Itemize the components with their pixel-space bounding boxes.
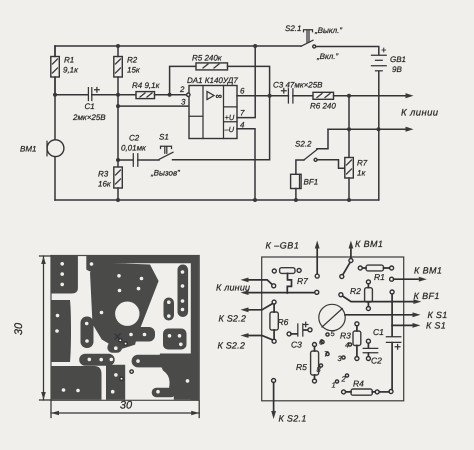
wire К S2.2 lower xyxy=(249,336,273,340)
svg-text:C1: C1 xyxy=(85,102,95,111)
node +U top xyxy=(253,44,257,48)
op-amp triangle symbol xyxy=(207,92,214,100)
wire feedback to output xyxy=(228,66,270,95)
wire К линии 2 xyxy=(249,292,315,294)
arrow К S2.1 xyxy=(272,379,276,383)
dimension left line xyxy=(43,256,45,400)
wire S2.2 line xyxy=(328,128,407,130)
arrow К ВМ1 top xyxy=(350,249,352,259)
headphone BF1 xyxy=(291,174,302,188)
svg-text:S2.1: S2.1 xyxy=(285,24,301,33)
svg-text:К ВМ1: К ВМ1 xyxy=(414,266,442,276)
arrow К -GB1 xyxy=(316,249,318,274)
wire R7 riser xyxy=(348,96,350,158)
capacitor C3 xyxy=(288,89,293,103)
svg-text:К ВМ1: К ВМ1 xyxy=(355,239,383,249)
pcb open holes xyxy=(119,339,134,381)
svg-text:2: 2 xyxy=(179,85,185,94)
svg-text:0,01мк: 0,01мк xyxy=(121,144,147,153)
wire К S2.2 upper xyxy=(249,304,273,310)
svg-text:4: 4 xyxy=(345,341,349,350)
resistor R5 xyxy=(196,63,228,70)
wire mid (C1 line) xyxy=(55,94,88,96)
pcb copper right border column xyxy=(191,256,199,400)
pcb copper bottom bar xyxy=(152,388,176,397)
pcb copper small capsule xyxy=(164,298,175,321)
svg-text:C2: C2 xyxy=(129,134,140,143)
wire R1 stubs xyxy=(54,46,56,95)
svg-text:„Вкл.”: „Вкл.” xyxy=(316,52,339,61)
svg-text:„Вызов”: „Вызов” xyxy=(150,169,180,178)
node R1/C1 xyxy=(53,93,57,97)
node feedback tap xyxy=(168,93,172,97)
resistor R6 xyxy=(272,300,276,304)
pcb copper pentagon tail capsule xyxy=(107,342,122,353)
wire К S1 upper xyxy=(345,314,412,316)
node C2 tap xyxy=(116,158,120,162)
switch S1 button xyxy=(161,146,172,153)
resistor R6 xyxy=(313,92,334,99)
wire К линии 1 xyxy=(249,280,272,285)
svg-text:R3: R3 xyxy=(340,331,351,341)
wire C3 to R6 xyxy=(293,95,313,97)
capacitor C3 xyxy=(287,332,291,336)
resistor R1 xyxy=(358,266,362,270)
wire top rail xyxy=(55,45,301,47)
resistor R7 xyxy=(345,158,354,179)
svg-text:R4: R4 xyxy=(353,379,364,389)
svg-text:DA1 К140УД7: DA1 К140УД7 xyxy=(187,76,238,85)
wire К BF1 xyxy=(339,293,343,297)
svg-text:К S2.1: К S2.1 xyxy=(279,414,307,424)
pcb copper mid-left capsule xyxy=(81,317,94,349)
resistor R4 xyxy=(136,92,155,99)
IC DA1 round package xyxy=(319,304,345,330)
resistor R3 xyxy=(355,322,359,326)
svg-text:К S1: К S1 xyxy=(426,321,446,331)
pcb copper central pentagon xyxy=(90,263,159,350)
resistor R7 xyxy=(272,269,276,273)
wire +U riser pin7 xyxy=(237,46,255,118)
wire R2 stubs xyxy=(117,46,119,95)
node output xyxy=(268,94,272,98)
pcb copper left column xyxy=(52,300,72,362)
svg-text:BM1: BM1 xyxy=(20,145,36,154)
resistor R1 xyxy=(51,57,60,78)
dimension bottom line xyxy=(51,412,199,414)
wire R3 bottom xyxy=(117,188,119,200)
wire R4 to opamp input xyxy=(155,94,188,96)
svg-text:16к: 16к xyxy=(98,180,112,189)
svg-text:R5: R5 xyxy=(296,362,307,372)
svg-text:С3 47мк×25В: С3 47мк×25В xyxy=(273,81,323,90)
node pin4 bottom xyxy=(253,198,257,202)
svg-text:„Выкл.”: „Выкл.” xyxy=(314,26,342,35)
wire S2.1 to battery xyxy=(316,47,379,55)
pad GB1 xyxy=(315,274,319,278)
svg-text:C2: C2 xyxy=(371,356,382,366)
svg-text:S2.2: S2.2 xyxy=(295,140,312,149)
svg-text:К S1: К S1 xyxy=(428,310,448,320)
svg-text:R3: R3 xyxy=(98,170,109,179)
svg-text:К BF1: К BF1 xyxy=(414,291,440,301)
svg-text:R6 240: R6 240 xyxy=(310,102,336,111)
node battery tap xyxy=(377,127,381,131)
svg-text:15к: 15к xyxy=(127,66,141,75)
pcb crosshair mark xyxy=(115,334,120,339)
node line tap xyxy=(347,94,351,98)
pcb copper top strip xyxy=(86,256,198,272)
pin pads around DA1 xyxy=(326,333,329,336)
arrow to line upper xyxy=(406,93,414,98)
board outline xyxy=(262,257,404,401)
svg-text:3: 3 xyxy=(181,98,186,107)
capacitor C1 xyxy=(386,337,400,343)
node R3 bottom xyxy=(116,198,120,202)
svg-text:6: 6 xyxy=(240,87,245,96)
pcb copper three-hole capsule xyxy=(79,354,115,366)
svg-text:GB1: GB1 xyxy=(390,55,406,64)
svg-text:К S2.2: К S2.2 xyxy=(219,314,247,324)
svg-text:К S2.2: К S2.2 xyxy=(218,341,246,351)
pcb copper bottom-right block xyxy=(160,354,199,400)
resistor R4 xyxy=(342,390,346,394)
svg-text:R6: R6 xyxy=(278,317,289,327)
svg-text:∞: ∞ xyxy=(216,91,223,101)
wire left rail lower xyxy=(54,157,56,200)
switch S2.2 xyxy=(317,129,328,149)
pcb copper bottom middle strip xyxy=(106,365,125,400)
wire pin6 output xyxy=(237,95,288,97)
svg-text:R2: R2 xyxy=(350,286,361,296)
wire left rail upper xyxy=(54,46,56,140)
svg-text:S1: S1 xyxy=(159,133,169,142)
wire C1 to node xyxy=(92,94,136,96)
wire R7 bottom xyxy=(348,178,350,200)
node R2/R3/R4 xyxy=(116,93,120,97)
svg-text:9В: 9В xyxy=(392,65,402,74)
wire feedback riser xyxy=(170,66,196,94)
wire R3 riser xyxy=(117,95,119,167)
svg-text:30: 30 xyxy=(120,400,133,412)
switch S2.1 button xyxy=(304,30,313,43)
wire pin3 xyxy=(118,105,189,107)
svg-text:R1: R1 xyxy=(374,272,385,282)
pad ВМ1 top + wire xyxy=(349,259,353,263)
svg-text:7: 7 xyxy=(240,109,245,118)
svg-text:9,1к: 9,1к xyxy=(63,66,79,75)
pcb copper bottom-left block xyxy=(52,366,102,400)
svg-text:R5 240к: R5 240к xyxy=(192,54,223,63)
pcb holes xyxy=(60,262,64,266)
resistor R3 xyxy=(114,167,123,188)
node BF1 bottom xyxy=(294,198,298,202)
node S2.2 line tap xyxy=(347,127,351,131)
pcb copper mid blob D14 xyxy=(128,327,156,342)
svg-text:R1: R1 xyxy=(64,56,74,65)
capacitor C1 xyxy=(88,88,91,101)
pcb copper right capsule strip xyxy=(178,265,189,318)
svg-text:2мк×25В: 2мк×25В xyxy=(72,113,106,122)
pcb copper top-left block xyxy=(52,256,78,294)
node R7 bottom xyxy=(347,198,351,202)
wire К S1 lower + C1 riser xyxy=(390,290,394,294)
pcb copper right-mid square F xyxy=(163,329,187,350)
pin 2 circle xyxy=(187,93,190,96)
battery GB1 xyxy=(372,54,387,56)
capacitor C2 xyxy=(133,154,138,166)
svg-text:R7: R7 xyxy=(297,276,308,286)
svg-text:R2: R2 xyxy=(127,56,138,65)
svg-text:+: + xyxy=(381,45,386,55)
op-amp DA1 box xyxy=(189,86,237,139)
svg-text:К линии: К линии xyxy=(401,108,439,119)
pcb big hole xyxy=(115,302,139,326)
svg-text:BF1: BF1 xyxy=(304,178,319,187)
wire C2 branch xyxy=(118,159,133,161)
svg-text:1: 1 xyxy=(332,381,336,390)
svg-text:R4 9,1к: R4 9,1к xyxy=(132,81,161,90)
capacitor C2 xyxy=(366,339,370,343)
svg-text:К линии: К линии xyxy=(216,283,250,293)
wire S2.2 to BF1 xyxy=(296,160,304,174)
wire battery minus down xyxy=(378,72,380,200)
resistor R2 xyxy=(114,57,123,78)
microphone BM1 xyxy=(47,140,64,157)
svg-text:–U: –U xyxy=(224,125,235,134)
resistor R2 xyxy=(366,280,370,284)
svg-text:+U: +U xyxy=(225,113,235,122)
svg-text:1к: 1к xyxy=(357,169,366,178)
svg-text:30: 30 xyxy=(13,322,25,335)
arrow to line lower xyxy=(406,127,414,132)
pcb board outline xyxy=(51,256,199,401)
svg-text:R7: R7 xyxy=(357,159,368,168)
node R2 top xyxy=(116,44,120,48)
svg-text:К –GB1: К –GB1 xyxy=(266,241,300,251)
svg-text:C1: C1 xyxy=(373,327,384,337)
node pin3 tap xyxy=(116,104,120,108)
wire -U pin4 to bottom xyxy=(237,129,255,200)
pad C1 bottom xyxy=(389,390,393,394)
wire R6 to line xyxy=(334,95,408,97)
wire S1 right xyxy=(173,96,270,160)
svg-text:C3: C3 xyxy=(291,340,302,350)
svg-text:2: 2 xyxy=(341,375,347,384)
wire К ВМ1 right xyxy=(390,277,394,281)
wire bottom rail xyxy=(55,199,379,201)
wire C2 to S1 xyxy=(138,159,159,161)
pcb copper arm bar xyxy=(132,355,168,368)
wire BF1 bottom xyxy=(295,189,297,201)
